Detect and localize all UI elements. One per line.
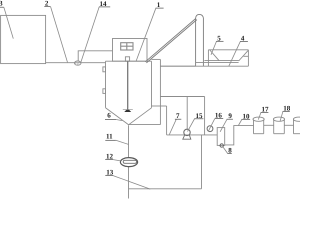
svg-text:7: 7 (176, 112, 180, 120)
svg-text:6: 6 (107, 111, 111, 119)
svg-text:14: 14 (100, 0, 108, 8)
svg-text:17: 17 (262, 105, 270, 113)
svg-text:10: 10 (243, 112, 251, 120)
svg-text:11: 11 (106, 132, 113, 140)
svg-text:13: 13 (106, 169, 114, 177)
svg-text:9: 9 (228, 112, 232, 120)
svg-text:8: 8 (228, 147, 232, 155)
svg-text:2: 2 (45, 0, 49, 8)
svg-text:1: 1 (157, 1, 161, 9)
svg-text:15: 15 (196, 112, 204, 120)
svg-text:18: 18 (283, 105, 291, 113)
svg-text:5: 5 (217, 34, 221, 42)
svg-text:12: 12 (106, 153, 114, 161)
svg-text:16: 16 (215, 112, 223, 120)
svg-text:4: 4 (241, 35, 245, 43)
svg-text:3: 3 (0, 0, 3, 8)
